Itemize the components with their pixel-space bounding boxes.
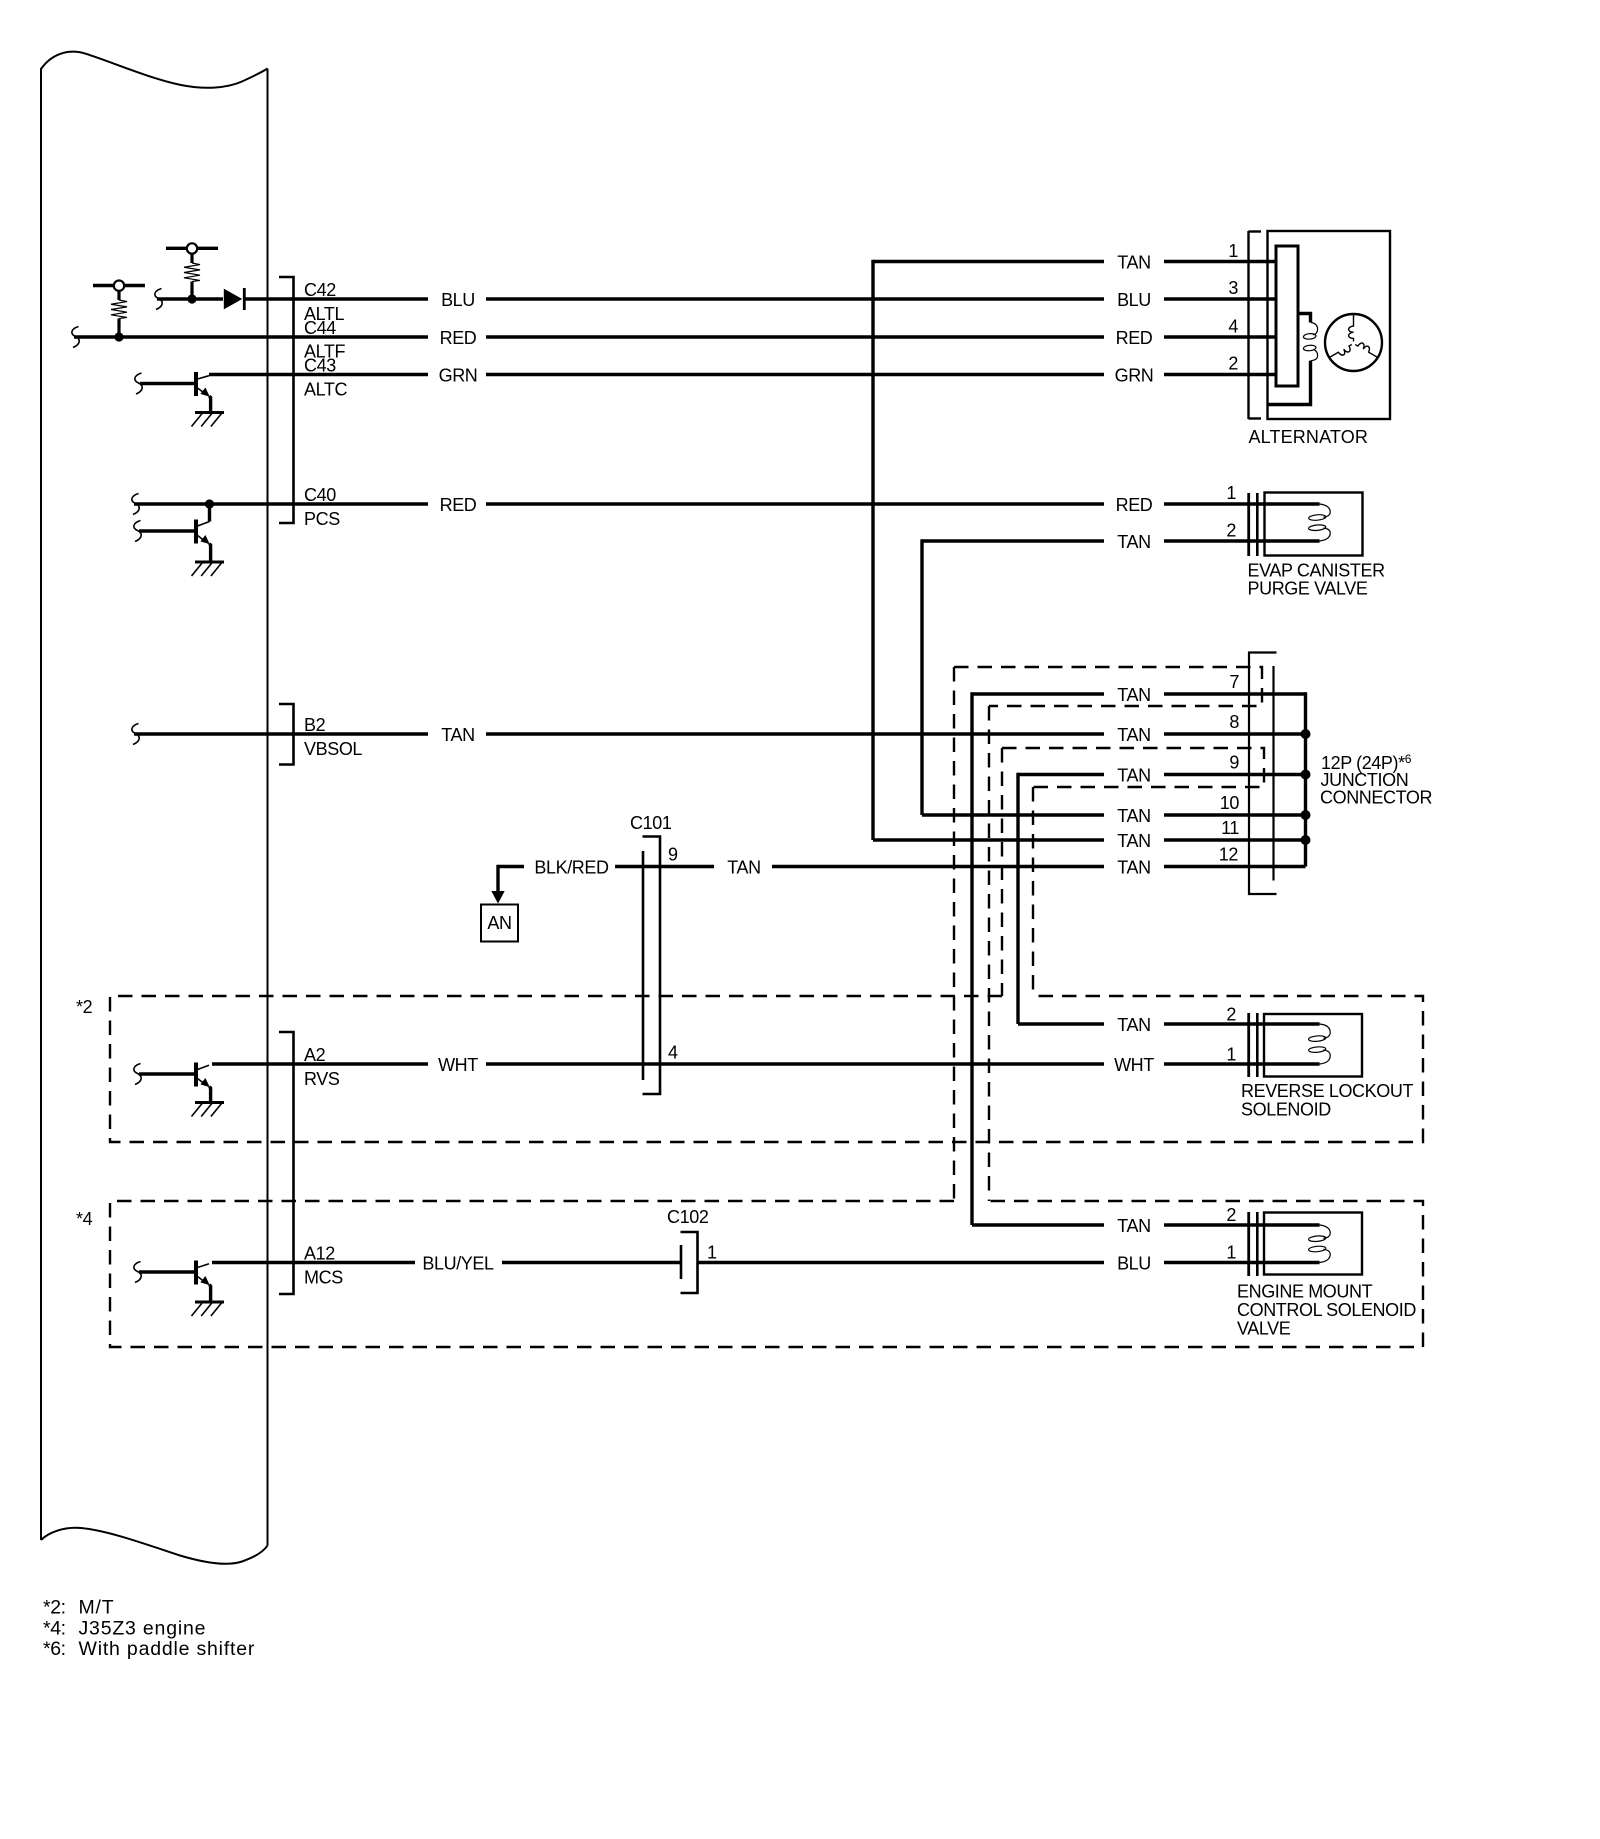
pin label C40/PCS — [304, 485, 340, 529]
wire WHT A2-RVS to reverse lockout pin 1 — [212, 1062, 1264, 1065]
pull-up resistor network (ALTF line) — [93, 281, 145, 334]
dashed riser A (24P option, pin7 left) — [953, 667, 955, 1201]
AN destination box — [481, 905, 518, 942]
wire stub squiggle B2 line — [132, 724, 139, 745]
label TAN left row8 — [441, 725, 474, 745]
pin number 1 (alternator) — [1228, 241, 1238, 261]
svg-text:EVAP CANISTER: EVAP CANISTER — [1248, 561, 1386, 581]
label ENGINE MOUNT CONTROL SOLENOID VALVE — [1237, 1282, 1416, 1339]
svg-text:BLU: BLU — [1117, 290, 1151, 310]
pin number 2 (reverse lockout) — [1226, 1005, 1236, 1025]
svg-text:10: 10 — [1220, 793, 1240, 813]
svg-text:12: 12 — [1219, 845, 1239, 865]
svg-text:3: 3 — [1228, 278, 1238, 298]
label WHT right — [1114, 1055, 1154, 1075]
junction connector body — [1249, 653, 1277, 895]
svg-text:REVERSE LOCKOUT: REVERSE LOCKOUT — [1241, 1081, 1413, 1101]
label RED right — [1116, 328, 1153, 348]
svg-text:1: 1 — [707, 1243, 717, 1263]
svg-text:9: 9 — [1229, 753, 1239, 773]
svg-text:CONNECTOR: CONNECTOR — [1320, 788, 1432, 808]
svg-text:TAN: TAN — [1117, 685, 1150, 705]
svg-text:2: 2 — [1226, 1205, 1236, 1225]
pin number 8 (junction) — [1229, 712, 1239, 732]
reverse lockout solenoid coil — [1264, 1024, 1330, 1064]
wire TAN junction pin9 riser to reverse lockout pin 2 — [1018, 1022, 1264, 1025]
wire RED C40-PCS to EVAP valve pin 1 — [134, 502, 1265, 505]
label RED left row5 — [440, 495, 477, 515]
dashed box *2 (M/T) outline — [110, 996, 1423, 1142]
diode on ALTL line — [224, 288, 245, 310]
ECM connector bracket (B2) — [279, 704, 294, 765]
svg-text:TAN: TAN — [1117, 766, 1150, 786]
svg-text:1: 1 — [1228, 241, 1238, 261]
svg-text:*2:: *2: — [43, 1597, 66, 1619]
svg-text:ENGINE MOUNT: ENGINE MOUNT — [1237, 1282, 1373, 1302]
label RED left — [440, 328, 477, 348]
label TAN mid row12 — [727, 858, 760, 878]
junction bus node pin9 — [1301, 770, 1311, 780]
pin number 1 (engine mount) — [1226, 1243, 1236, 1263]
pin number 2 (alternator) — [1228, 354, 1238, 374]
label *4 — [76, 1209, 93, 1229]
alternator stator (3-phase star) — [1325, 314, 1382, 371]
label TAN row7 — [1117, 685, 1150, 705]
svg-text:*4:: *4: — [43, 1617, 66, 1639]
label *2 — [76, 997, 93, 1017]
svg-text:WHT: WHT — [438, 1055, 478, 1075]
svg-text:TAN: TAN — [1117, 253, 1150, 273]
engine mount solenoid coil — [1264, 1225, 1330, 1263]
pin number 1 (C102) — [707, 1243, 717, 1263]
svg-text:VBSOL: VBSOL — [304, 739, 362, 759]
svg-text:TAN: TAN — [1117, 532, 1150, 552]
pin label C42/ALTL — [304, 280, 344, 324]
label ALTERNATOR — [1249, 427, 1369, 447]
arrow to AN — [491, 865, 504, 904]
svg-text:1: 1 — [1226, 1243, 1236, 1263]
svg-text:CONTROL SOLENOID: CONTROL SOLENOID — [1237, 1300, 1416, 1320]
wire riser (junction pin9 / reverse lockout pin2) — [1016, 773, 1019, 1024]
label TAN row11 — [1117, 831, 1150, 851]
label GRN right — [1115, 366, 1154, 386]
label WHT left — [438, 1055, 478, 1075]
label BLK/RED — [534, 858, 609, 878]
svg-text:TAN: TAN — [1117, 1216, 1150, 1236]
svg-text:M/T: M/T — [79, 1597, 115, 1619]
svg-text:J35Z3 engine: J35Z3 engine — [79, 1617, 207, 1639]
svg-text:TAN: TAN — [1117, 806, 1150, 826]
label TAN row1 — [1117, 253, 1150, 273]
transistor driver Q-ALTC with ground — [135, 372, 224, 427]
pin number 7 (junction) — [1229, 672, 1239, 692]
label 12P (24P) junction connector — [1320, 752, 1432, 808]
wire TAN B2-VBSOL to junction pin 8 — [134, 732, 1306, 735]
transistor driver Q-MCS with ground — [134, 1261, 224, 1317]
svg-text:*4: *4 — [76, 1209, 93, 1229]
footnote *6 with paddle shifter — [43, 1638, 255, 1660]
pin label A2/RVS — [304, 1045, 340, 1089]
svg-text:4: 4 — [668, 1043, 678, 1063]
svg-text:A12: A12 — [304, 1244, 335, 1264]
svg-text:BLK/RED: BLK/RED — [534, 858, 609, 878]
label C101 — [630, 813, 672, 833]
svg-text:C43: C43 — [304, 356, 336, 376]
wire TAN junction pin 7 — [972, 692, 1306, 695]
svg-text:RED: RED — [1116, 328, 1153, 348]
alternator box — [1268, 231, 1391, 419]
svg-text:VALVE: VALVE — [1237, 1319, 1291, 1339]
svg-text:GRN: GRN — [1115, 366, 1154, 386]
pin label B2/VBSOL — [304, 715, 362, 759]
wire GRN C43-ALTC to alternator pin 2 — [209, 373, 1277, 376]
pin number 4 (alternator) — [1228, 317, 1238, 337]
wire TAN junction pin 11 — [873, 838, 1306, 841]
dashed riser B (24P option, pin7 right) — [988, 706, 990, 1201]
junction bus node pin8 — [1301, 729, 1311, 739]
label EVAP CANISTER PURGE VALVE — [1248, 561, 1386, 599]
svg-text:RED: RED — [440, 495, 477, 515]
svg-text:2: 2 — [1228, 354, 1238, 374]
svg-text:1: 1 — [1226, 1045, 1236, 1065]
label RED right row5 — [1116, 495, 1153, 515]
EVAP valve connector lines — [1249, 493, 1258, 556]
svg-text:BLU: BLU — [1117, 1254, 1151, 1274]
svg-text:PCS: PCS — [304, 509, 340, 529]
svg-text:BLU/YEL: BLU/YEL — [422, 1254, 494, 1274]
transistor driver Q-PCS with ground — [134, 499, 224, 576]
svg-text:C44: C44 — [304, 318, 336, 338]
pin number 2 (EVAP) — [1226, 521, 1236, 541]
footnote *4 J35Z3 engine — [43, 1617, 206, 1639]
ECM/PCM body outline (partial, torn edges) — [41, 52, 268, 1564]
wire TAN (EVAP valve pin 2 riser) — [922, 539, 1265, 542]
label REVERSE LOCKOUT SOLENOID — [1241, 1081, 1413, 1120]
label GRN left — [439, 366, 478, 386]
reverse lockout connector lines — [1249, 1013, 1258, 1077]
svg-text:ALTERNATOR: ALTERNATOR — [1249, 427, 1369, 447]
svg-text:7: 7 — [1229, 672, 1239, 692]
svg-text:RED: RED — [1116, 495, 1153, 515]
label TAN row10 — [1117, 806, 1150, 826]
ECM connector bracket (C42/C44/C43/C40) — [279, 277, 294, 523]
engine mount box — [1264, 1213, 1362, 1275]
label TAN row13 — [1117, 1015, 1150, 1035]
engine mount connector lines — [1249, 1212, 1258, 1276]
dashed hook at junction pin 9 (24P option) — [1002, 748, 1264, 787]
wire riser (junction pin7 / engine mount pin2) — [970, 692, 973, 1225]
svg-text:RED: RED — [440, 328, 477, 348]
wire stub squiggle C44 line — [72, 327, 79, 348]
wire TAN junction pin 9 — [1018, 773, 1306, 776]
svg-text:RVS: RVS — [304, 1069, 340, 1089]
dashed riser C (24P option, pin9 left) — [1001, 748, 1003, 996]
in-line connector C102 — [681, 1232, 698, 1293]
wire TAN junction pin7 riser to engine mount pin 2 — [972, 1223, 1264, 1226]
wire riser (alternator pin1 / junction pin11) — [871, 260, 874, 840]
label TAN row15 — [1117, 1216, 1150, 1236]
svg-text:TAN: TAN — [1117, 1015, 1150, 1035]
label TAN row6 — [1117, 532, 1150, 552]
svg-text:TAN: TAN — [1117, 831, 1150, 851]
EVAP valve solenoid coil — [1265, 504, 1331, 541]
svg-text:MCS: MCS — [304, 1268, 343, 1288]
wire BLU C42-ALTL to alternator pin 3 — [157, 297, 1277, 300]
svg-text:9: 9 — [668, 845, 678, 865]
pull-up resistor network (ALTL line) — [166, 243, 218, 295]
svg-text:GRN: GRN — [439, 366, 478, 386]
svg-text:2: 2 — [1226, 1005, 1236, 1025]
pin label C43/ALTC — [304, 356, 347, 400]
footnote *2 M/T — [43, 1597, 114, 1619]
pin number 12 (junction) — [1219, 845, 1239, 865]
in-line connector C101 — [643, 837, 661, 1095]
wire stub squiggle C42 line — [155, 289, 162, 310]
label TAN right row8 — [1117, 725, 1150, 745]
dashed box *4 (J35Z3) outline — [110, 1201, 1423, 1347]
label BLU right row16 — [1117, 1254, 1151, 1274]
dashed riser D (24P option, pin9 right) — [1032, 787, 1034, 996]
junction connector bus bar — [1304, 692, 1307, 866]
svg-text:With paddle shifter: With paddle shifter — [79, 1638, 256, 1660]
svg-text:A2: A2 — [304, 1045, 326, 1065]
pin label A12/MCS — [304, 1244, 343, 1288]
svg-text:TAN: TAN — [727, 858, 760, 878]
svg-text:AN: AN — [487, 913, 511, 933]
svg-text:C102: C102 — [667, 1207, 709, 1227]
label C102 — [667, 1207, 709, 1227]
svg-text:1: 1 — [1226, 483, 1236, 503]
svg-text:TAN: TAN — [441, 725, 474, 745]
alternator connector bracket — [1249, 231, 1262, 419]
wire stub squiggle C40 line — [132, 494, 139, 515]
svg-text:C40: C40 — [304, 485, 336, 505]
svg-text:2: 2 — [1226, 521, 1236, 541]
wire RED C44-ALTF to alternator pin 4 — [74, 335, 1277, 338]
svg-text:TAN: TAN — [1117, 725, 1150, 745]
pin number 9 (C101) — [668, 845, 678, 865]
reverse lockout box — [1264, 1014, 1362, 1077]
pin number 11 (junction) — [1221, 818, 1239, 838]
transistor driver Q-RVS with ground — [134, 1063, 224, 1117]
pin number 9 (junction) — [1229, 753, 1239, 773]
pin number 4 (C101) — [668, 1043, 678, 1063]
alternator regulator block — [1276, 246, 1298, 386]
junction dot on ALTF line — [114, 332, 123, 341]
label TAN right row12 — [1117, 858, 1150, 878]
pin label C44/ALTF — [304, 318, 345, 362]
svg-text:B2: B2 — [304, 715, 326, 735]
label TAN row9 — [1117, 766, 1150, 786]
pin number 3 (alternator) — [1228, 278, 1238, 298]
pin number 1 (EVAP) — [1226, 483, 1236, 503]
svg-text:WHT: WHT — [1114, 1055, 1154, 1075]
svg-text:C101: C101 — [630, 813, 672, 833]
svg-text:4: 4 — [1228, 317, 1238, 337]
wire BLU/YEL A12-MCS to engine mount pin 1 — [212, 1261, 1264, 1264]
svg-text:TAN: TAN — [1117, 858, 1150, 878]
label BLU left — [441, 290, 475, 310]
pin number 10 (junction) — [1220, 793, 1240, 813]
wire TAN junction pin 10 — [922, 813, 1306, 816]
EVAP valve box — [1265, 493, 1363, 556]
ECM connector bracket (A2/A12) — [279, 1032, 294, 1294]
junction bus node pin11 — [1301, 835, 1311, 845]
dashed hook at junction pin 7 (24P option) — [954, 667, 1262, 706]
wire riser (EVAP pin2 / junction pin10) — [920, 539, 923, 815]
wire TAN (junction 11 riser to alternator pin 1) — [873, 260, 1277, 263]
svg-text:*2: *2 — [76, 997, 93, 1017]
alternator rotor field coil path — [1268, 314, 1318, 405]
svg-text:ALTC: ALTC — [304, 380, 347, 400]
svg-text:PURGE VALVE: PURGE VALVE — [1248, 579, 1368, 599]
label BLU/YEL — [422, 1254, 494, 1274]
svg-text:C42: C42 — [304, 280, 336, 300]
svg-text:BLU: BLU — [441, 290, 475, 310]
label BLU right — [1117, 290, 1151, 310]
junction dot on ALTL line — [187, 294, 196, 303]
svg-text:SOLENOID: SOLENOID — [1241, 1100, 1331, 1120]
pin number 1 (reverse lockout) — [1226, 1045, 1236, 1065]
pin number 2 (engine mount) — [1226, 1205, 1236, 1225]
svg-text:*6:: *6: — [43, 1638, 66, 1660]
svg-text:8: 8 — [1229, 712, 1239, 732]
svg-text:11: 11 — [1221, 818, 1239, 838]
wire BLK/RED-TAN C101 pin 9 to junction pin 12 — [498, 865, 1306, 868]
junction bus node pin10 — [1301, 810, 1311, 820]
